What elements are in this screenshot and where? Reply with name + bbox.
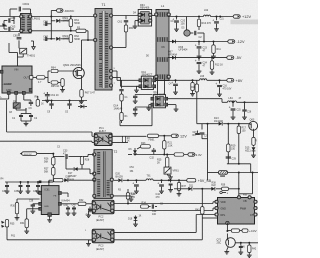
label near VR: [130, 167, 135, 173]
capacitor C632: [150, 148, 157, 160]
label R623: [141, 142, 146, 145]
label C623: [203, 47, 208, 53]
wire PC601 right bottom: [112, 142, 128, 144]
label C616: [223, 85, 232, 91]
capacitor C602b: [4, 21, 14, 32]
label C633b: [57, 147, 61, 149]
rectifier D612: [151, 95, 168, 108]
wire LF601 to T1 (top): [31, 16, 94, 18]
label R619: [231, 145, 236, 151]
diode D617: [66, 158, 94, 174]
label VR601: [173, 170, 180, 173]
label R620: [149, 138, 156, 141]
wire -12V rail: [168, 41, 228, 43]
capacitor C641: [86, 207, 93, 217]
label C624: [203, 62, 208, 68]
net +5V_SB: [198, 179, 212, 183]
wire feedback bus 1: [7, 100, 95, 136]
resistor R636: [187, 179, 196, 182]
wire PC603 out bottom: [114, 214, 217, 240]
label C626: [247, 112, 252, 114]
row above IC601: [49, 180, 53, 182]
resistor R602: [69, 35, 72, 43]
ground VR601: [168, 174, 173, 179]
label D611 out: [169, 84, 173, 86]
resistor R601: [69, 17, 72, 31]
ground PC602: [86, 211, 92, 218]
label R605: [51, 85, 60, 88]
diode D602: [50, 37, 71, 41]
resistor R635: [5, 220, 8, 240]
wire row163: [227, 164, 251, 173]
label left edge R4: [1, 179, 5, 181]
diode D606: [172, 40, 188, 52]
label R631: [20, 222, 25, 225]
wire -300VDC rail vertical: [50, 11, 52, 40]
ground PC603: [86, 240, 92, 246]
diode D622: [211, 183, 216, 191]
wire feedback bus 2: [0, 141, 94, 142]
resistor R610: [197, 17, 200, 31]
wire IC right to opto: [62, 203, 93, 205]
IC701 top stub: [220, 191, 229, 195]
net +12V mid: [171, 134, 187, 138]
label R616: [191, 87, 196, 89]
sub row 188.8: [174, 188, 240, 190]
capacitor C618: [133, 107, 153, 116]
junction mark: [39, 181, 42, 184]
resistor R627: [44, 168, 55, 176]
capacitor C636: [26, 182, 31, 194]
capacitor C634: [5, 182, 10, 194]
label C601: [23, 2, 30, 6]
resistor R622: [122, 136, 125, 142]
diode D601: [51, 19, 71, 23]
wire T1 pin1 top right: [113, 15, 138, 17]
label D618: [66, 176, 75, 182]
electrolytic C623: [195, 42, 202, 59]
wire row154: [134, 154, 188, 156]
label R630: [11, 205, 16, 208]
wire TH601 loop: [9, 43, 23, 66]
chassis ground (input): [31, 41, 35, 50]
label C602: [11, 16, 16, 29]
choke L601: [155, 10, 171, 81]
label R622: [127, 138, 131, 143]
label R603: [77, 27, 81, 30]
resistor R624: [174, 153, 184, 156]
label C637: [33, 191, 38, 193]
wire PC602 out bottom: [114, 208, 215, 210]
diode D618: [64, 178, 95, 182]
wire row182 caps: [5, 181, 53, 183]
label R609: [129, 27, 134, 30]
mosfet Q601: [73, 67, 84, 78]
label T601: [147, 175, 152, 178]
wire IC701 bottom pin: [227, 223, 231, 231]
label C611: [51, 94, 60, 97]
IC IC701: [215, 196, 257, 225]
wire -300 to rail: [37, 153, 55, 155]
electrolytic C620: [172, 17, 179, 32]
label C621: [220, 19, 225, 21]
capacitor C642: [149, 204, 158, 216]
resistor R620: [148, 134, 159, 137]
capacitor C635: [18, 182, 23, 194]
zener D616: [128, 148, 137, 155]
transformer T2: [93, 150, 114, 199]
optocoupler PC603: [92, 229, 114, 243]
wire T1 to D611 upper: [113, 71, 140, 80]
wire D604 to L601: [152, 15, 156, 17]
capacitor C602a: [4, 17, 14, 25]
capacitor C614: [119, 80, 123, 94]
label left edge mark: [1, 96, 3, 99]
label L602: [204, 9, 209, 12]
label D607: [168, 50, 178, 56]
label C638: [29, 201, 34, 203]
label T2: [114, 150, 118, 154]
label C646: [241, 247, 246, 249]
label L601: [161, 4, 165, 8]
wire +12V rail: [168, 16, 233, 18]
capacitor C617: [133, 95, 153, 104]
label R610: [202, 22, 212, 25]
label C627b: [204, 136, 209, 138]
label C642c: [160, 204, 164, 206]
diode D605: [184, 17, 190, 37]
wire L601 to D612 left: [158, 79, 165, 95]
wire Q601 source to R607: [81, 76, 83, 90]
label L604: [229, 97, 234, 100]
capacitor C601 across line (top): [10, 7, 31, 17]
rail x53 vertical: [52, 154, 54, 182]
wire second row to T1 pin2: [51, 30, 94, 40]
label C640: [72, 205, 77, 207]
resistor R611: [211, 42, 216, 59]
label PC603: [96, 245, 104, 251]
net +C3V: [249, 229, 257, 233]
label D601: [63, 18, 72, 23]
resistor R615: [190, 80, 195, 96]
zener D619: [128, 216, 138, 227]
label misc2: [171, 21, 175, 23]
resistor R634: [141, 202, 149, 209]
resistor R603 series: [76, 29, 86, 32]
capacitor C637: [36, 182, 41, 194]
label D613: [214, 117, 223, 123]
label C612: [12, 107, 38, 120]
capacitor C606: [46, 22, 52, 26]
label U601 pin note: [3, 84, 12, 86]
capacitor C633: [66, 154, 78, 159]
label FR601 hatch: [220, 174, 225, 177]
label D604 pin: [133, 13, 137, 15]
label D611: [142, 71, 153, 77]
inductor L603: [200, 79, 207, 81]
wire lower row anchor: [42, 100, 87, 102]
label R642: [252, 249, 257, 251]
label C605: [13, 34, 18, 38]
wire sub-row drop: [201, 188, 203, 207]
fusible resistor FR601: [219, 171, 228, 175]
wire T1 to D611 lower: [113, 78, 140, 87]
ground D604: [133, 21, 139, 29]
net +8V: [227, 79, 243, 83]
wire LF601 to T1 (bottom): [31, 30, 51, 32]
label misc1: [146, 56, 150, 58]
rectifier D611: [139, 76, 156, 89]
capacitor C609: [47, 101, 54, 114]
wire snubber top: [53, 155, 94, 157]
wire mid vertical: [202, 123, 209, 181]
label PC602: [96, 216, 104, 222]
resistor R609: [113, 25, 128, 48]
label R604: [51, 67, 56, 70]
resistor R606: [60, 79, 65, 92]
label D620: [116, 173, 124, 179]
label R608b: [41, 104, 44, 106]
label R639: [221, 185, 226, 187]
capacitor C629: [226, 157, 237, 161]
resistor R639: [222, 187, 229, 190]
label R611: [217, 48, 222, 51]
resistor R626: [44, 157, 55, 165]
inductor L604: [228, 101, 237, 102]
capacitor C622: [190, 31, 204, 41]
electrolytic C616: [215, 80, 222, 96]
transistor Q602: [13, 102, 26, 111]
label D617: [68, 172, 77, 178]
electrolytic C643: [132, 180, 139, 193]
transistor Q701: [226, 230, 236, 247]
label R601: [74, 19, 80, 25]
electrolytic C625: [229, 102, 236, 119]
wire U601 OUT to gate network: [33, 71, 48, 83]
label C627: [195, 132, 199, 135]
resistor R604: [48, 69, 75, 72]
wire T2 pin lower: [113, 196, 133, 202]
resistor R621: [163, 136, 166, 155]
resistor R623: [137, 145, 150, 149]
resistor R612: [210, 58, 215, 75]
capacitor C627: [200, 124, 205, 139]
label C606: [43, 21, 48, 27]
resistor R607: [80, 90, 83, 98]
resistor R617: [237, 124, 240, 165]
label Q601: [63, 63, 81, 67]
electrolytic C615: [171, 80, 178, 94]
label LF601: [32, 17, 40, 21]
diode D607: [172, 56, 176, 60]
label D619b: [139, 216, 142, 218]
resistor R613: [120, 94, 123, 103]
label R635: [10, 223, 15, 226]
resistor R608: [36, 96, 39, 106]
wire rail y102: [168, 99, 258, 104]
label C635: [2, 191, 19, 193]
label R621: [168, 142, 173, 148]
label C614: [114, 105, 123, 111]
wire row 172.5: [208, 172, 259, 174]
diode D620: [114, 178, 143, 182]
resistor R643: [201, 207, 204, 215]
capacitor C631: [193, 131, 200, 137]
diode D614: [219, 122, 223, 126]
ground D612: [146, 105, 151, 111]
wire long bottom left: [7, 239, 92, 241]
label D602: [63, 36, 72, 41]
resistor R640: [231, 229, 239, 232]
resistor R633: [126, 189, 129, 204]
optocoupler PC601: [94, 133, 112, 146]
diode D621: [188, 185, 194, 190]
wire diode row: [197, 123, 249, 125]
transformer T1: [94, 9, 113, 91]
electrolytic C624: [195, 58, 202, 74]
label C625: [237, 110, 242, 112]
resistor R629: [54, 179, 64, 182]
wire PC603 out top: [114, 215, 215, 233]
shaded ribbon: [231, 20, 259, 25]
wire Q601 drain to T1 pin2: [82, 39, 94, 71]
label R602: [74, 35, 80, 41]
wire AC input line 2: [0, 26, 21, 32]
capacitor C639: [64, 205, 71, 216]
label T1 pin7: [114, 83, 116, 85]
label R618: [255, 140, 257, 143]
label Q602b: [9, 112, 13, 114]
electrolytic C644: [157, 180, 164, 193]
wire -5V rail: [168, 57, 227, 59]
resistor R628: [78, 156, 84, 168]
label R633b: [118, 190, 122, 192]
potentiometer VR601: [164, 167, 171, 174]
capacitor C646: [238, 243, 243, 255]
capacitor C610: [65, 101, 72, 114]
label Q602: [13, 100, 17, 103]
net -300VDC (top): [57, 9, 75, 13]
resistor R630: [15, 199, 40, 220]
resistor R632: [78, 199, 86, 206]
IC IC601: [39, 186, 62, 217]
electrolytic C621: [212, 17, 219, 32]
label Q603: [250, 119, 255, 122]
capacitor C640: [72, 206, 77, 216]
label PC601: [99, 127, 107, 133]
wire PC602 out top: [114, 202, 215, 205]
rectifier D604: [138, 10, 152, 27]
wire AC input line 1: [0, 16, 21, 18]
inductor L602: [204, 15, 211, 16]
arrow input marker: [2, 23, 6, 26]
resistor R644 gate series: [37, 76, 46, 79]
ground C612: [24, 122, 29, 126]
resistor R641: [240, 229, 249, 232]
net -300VDC bottom: [20, 152, 37, 156]
label R608: [35, 96, 39, 99]
resistor R631: [24, 209, 39, 234]
label opto2 pin: [85, 230, 87, 232]
label R633: [131, 193, 136, 199]
label R617: [242, 127, 247, 133]
resistor R614: [120, 103, 123, 123]
zener D615: [251, 145, 256, 157]
ground Q701: [224, 247, 229, 254]
label C607: [43, 35, 48, 41]
wire snubber to D612: [120, 108, 152, 126]
label R644: [38, 81, 42, 84]
ground IC601: [47, 216, 52, 222]
capacitor C645: [168, 180, 173, 192]
capacitor C638: [30, 204, 39, 214]
ground Q601 source: [79, 97, 84, 103]
label IC701 corner: [243, 195, 248, 197]
wire D612 lower out: [168, 105, 179, 112]
label D612: [154, 91, 165, 97]
label C613: [118, 21, 123, 24]
label T1 pin9: [114, 68, 116, 70]
label D604: [140, 4, 150, 10]
resistor R642: [247, 243, 252, 258]
line filter LF601: [20, 14, 32, 34]
wire PC601 right top: [112, 135, 171, 137]
label C643: [131, 193, 136, 199]
resistor R619: [227, 124, 230, 164]
label D615: [245, 147, 251, 153]
wire rail to pill: [50, 11, 56, 18]
resistor R605: [48, 81, 62, 84]
label C620: [181, 20, 186, 26]
inductor T601: [143, 179, 187, 181]
net B+ small: [188, 153, 202, 157]
capacitor C626: [242, 101, 247, 119]
label C644: [156, 193, 161, 199]
label C622: [199, 36, 203, 39]
resistor R618: [252, 137, 255, 145]
capacitor C607: [46, 37, 52, 41]
net -5V: [227, 56, 242, 60]
wire U601 pin1 down: [0, 94, 24, 101]
label D605b: [182, 28, 186, 30]
label L603: [200, 75, 205, 78]
wire +8V rail: [156, 79, 227, 81]
capacitor C605: [17, 33, 22, 48]
wire rail to IC601: [48, 181, 53, 186]
label F601: [11, 235, 16, 238]
label C633: [63, 150, 68, 156]
capacitor C613: [124, 16, 128, 26]
IC U601 SMPS controller: [0, 66, 33, 94]
label D-upper: [162, 46, 166, 49]
label T1: [102, 3, 106, 7]
thermistor TH601: [20, 48, 27, 54]
label R625: [157, 159, 162, 165]
wire Q701 collector row: [235, 242, 258, 244]
resistor R625: [166, 154, 169, 168]
label R643: [195, 210, 200, 212]
resistor R637: [177, 180, 182, 196]
label C614b: [125, 96, 129, 118]
optocoupler PC602: [92, 200, 114, 214]
resistor R616: [195, 80, 198, 123]
label R612: [215, 64, 223, 67]
label R637: [182, 185, 187, 188]
capacitor C628: [227, 154, 229, 157]
label IC601 type: [62, 200, 71, 203]
label R607: [85, 92, 96, 95]
label L604b: [239, 98, 242, 100]
